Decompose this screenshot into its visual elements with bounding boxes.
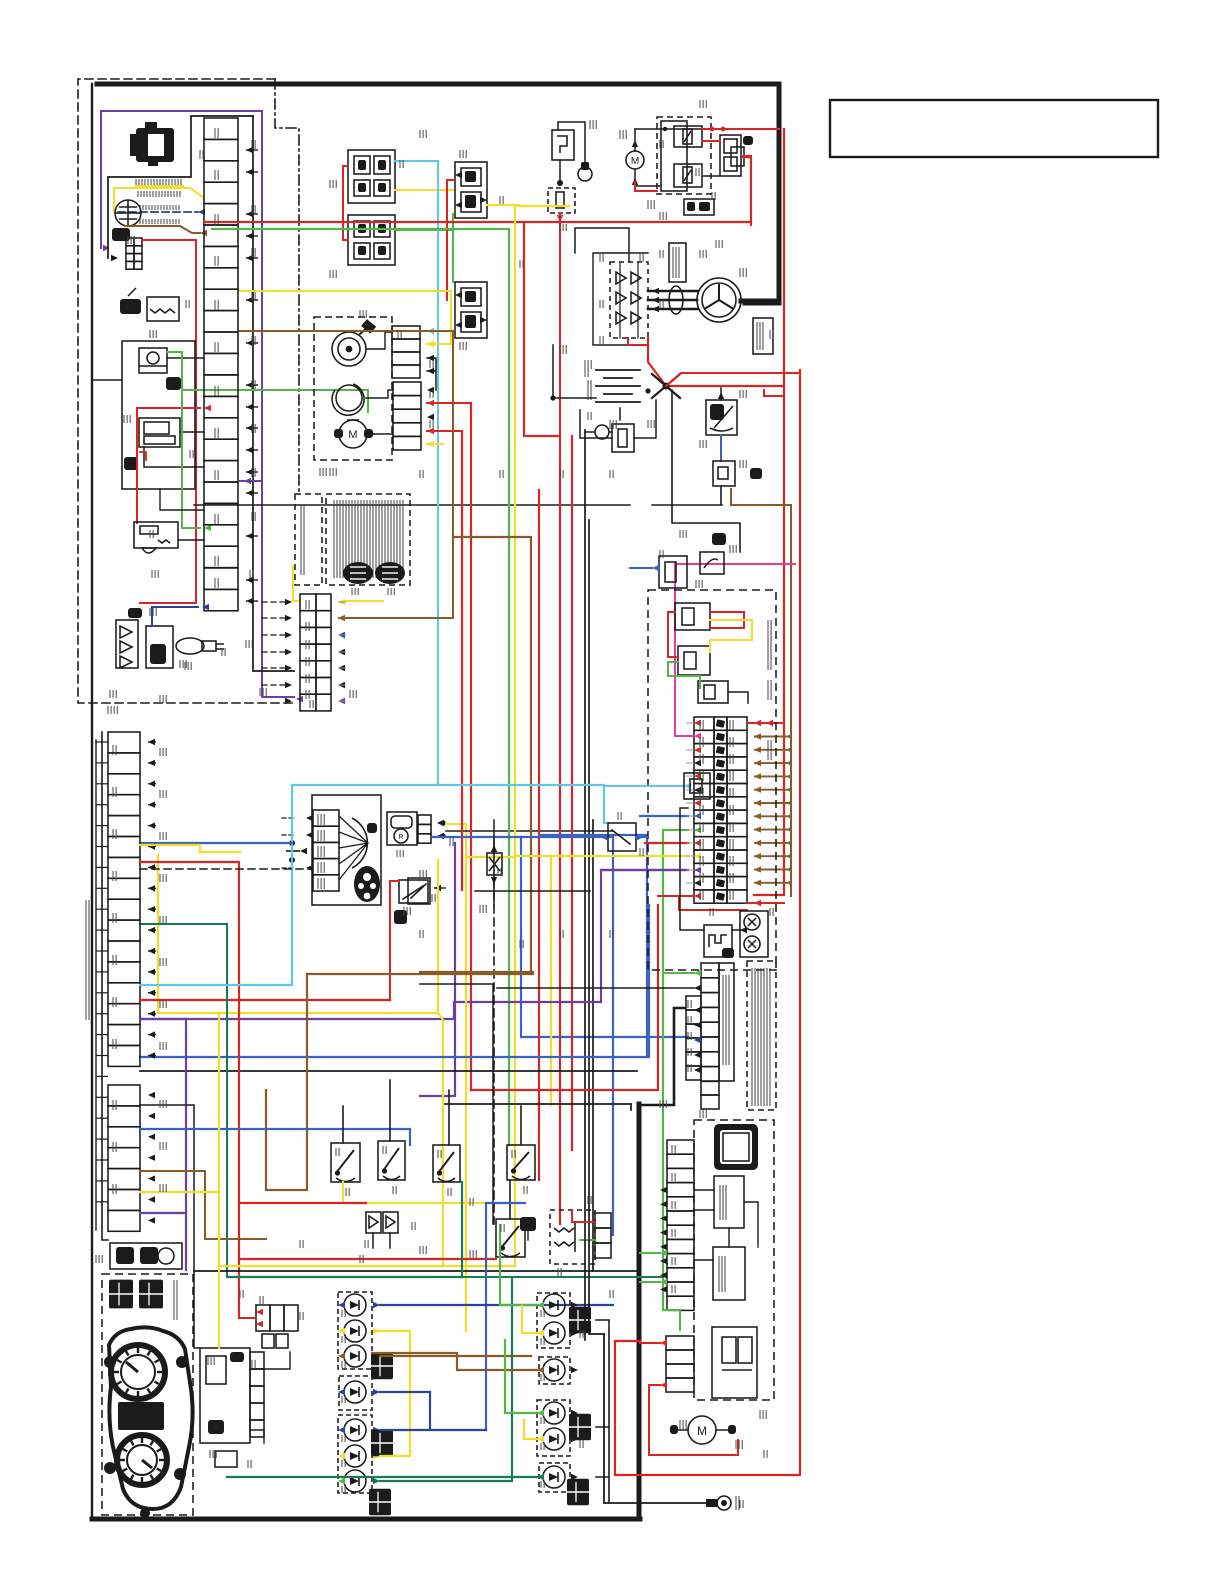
- bulb A3: [344, 1345, 366, 1367]
- throttle sensor box: [139, 348, 167, 373]
- ground bolt bulb: [578, 167, 592, 181]
- starter red right: [743, 156, 751, 225]
- bulb blue lead A1: [380, 1304, 613, 1306]
- speed limiter main cells: [701, 963, 719, 978]
- main connector column lower: [204, 568, 238, 589]
- brown v531: [453, 537, 531, 974]
- headlight dashed box B: [539, 1357, 570, 1384]
- label text row1: [135, 179, 137, 185]
- purple fuse 870: [601, 869, 688, 871]
- ps adc box: [713, 1247, 745, 1300]
- bulb C1: [344, 1419, 366, 1441]
- black v589 low: [589, 1240, 604, 1334]
- red alternator branch: [628, 338, 648, 345]
- black harness outline: [108, 116, 253, 258]
- relay yellow link: [487, 205, 519, 206]
- headlight relay box: [348, 215, 395, 265]
- pod lower box: [139, 418, 180, 447]
- diode leads: [373, 1233, 390, 1248]
- taillight dashed box C: [338, 1415, 372, 1493]
- black long 842 blue: [140, 842, 292, 844]
- red bundle v1: [470, 403, 472, 1090]
- efi system dashed box: [295, 494, 322, 585]
- ps green vertical: [663, 1310, 680, 1330]
- ps lower cells: [666, 1336, 694, 1350]
- ps motor red loop: [649, 1385, 738, 1455]
- tps box: [387, 812, 417, 845]
- horn feed black: [680, 808, 704, 930]
- bulb C3: [344, 1470, 366, 1492]
- front unit wires to conn: [366, 332, 393, 434]
- green mid v509: [212, 229, 509, 1145]
- phase loop ellipse: [669, 286, 683, 314]
- left blue 1129: [140, 1129, 410, 1145]
- red v572: [571, 436, 573, 1150]
- turn signal switch: [433, 1145, 460, 1182]
- fuse feed blue: [640, 815, 688, 817]
- frame bottom border: [92, 1517, 640, 1522]
- blue v613: [433, 837, 613, 1235]
- red row 1259: [239, 1258, 496, 1260]
- black long 891: [475, 890, 590, 892]
- frame ground lower: [604, 1334, 716, 1503]
- red long 1090: [471, 905, 658, 1090]
- dimmer switch: [331, 1143, 360, 1182]
- blue v521: [521, 837, 688, 1037]
- frame left border: [91, 84, 93, 1519]
- red mid v524: [204, 157, 751, 436]
- yellow dimmer lead: [343, 1182, 515, 1203]
- reg label box2: [753, 318, 773, 354]
- starter second box: [731, 147, 744, 166]
- bulb B1: [344, 1381, 366, 1403]
- yellow front conn2: [427, 443, 443, 445]
- headlight dashed box C: [537, 1400, 570, 1456]
- bulb R1: [543, 1294, 565, 1316]
- red row 1203 w: [239, 1202, 366, 1204]
- clutch lever blob: [712, 533, 726, 545]
- light switch: [507, 1145, 535, 1180]
- main relay red lead: [764, 390, 784, 396]
- black v589: [588, 520, 590, 1240]
- tps yellow: [446, 824, 466, 857]
- purple harness loop: [101, 111, 262, 248]
- fuse red bottom: [658, 895, 694, 897]
- sidestand diode box: [487, 853, 502, 875]
- tachometer dial: [111, 1345, 165, 1399]
- left strip label: [85, 900, 87, 1020]
- handlebar pod outline: [122, 341, 195, 489]
- fuse left arrows: [694, 720, 701, 726]
- starter relay element lower: [674, 164, 702, 187]
- relay box 1: [675, 603, 710, 630]
- bulb R2: [543, 1322, 565, 1344]
- ignition coil box: [147, 297, 179, 321]
- starter area label box: [684, 199, 714, 215]
- relay connecting green: [452, 214, 454, 282]
- ps arrows: [660, 1187, 667, 1193]
- grip blob: [166, 377, 181, 390]
- cyan into relay: [604, 822, 608, 824]
- purple rail right of column: [262, 157, 294, 697]
- taillight dashed box A: [338, 1292, 372, 1369]
- red front conn: [427, 403, 471, 431]
- spark unit box: [200, 1348, 250, 1443]
- ps green arrows: [660, 1250, 667, 1256]
- fuse feed red: [645, 842, 688, 844]
- starter relay element upper: [674, 126, 702, 147]
- black sl wire: [497, 987, 694, 989]
- stator housing line: [593, 253, 648, 345]
- yellow v515: [515, 206, 569, 1266]
- ground bolt icon: [717, 1496, 731, 1510]
- ps red arrows: [660, 1340, 667, 1346]
- purple v455: [420, 843, 455, 1096]
- front unit dashed box: [314, 317, 392, 460]
- horn relay: [704, 925, 732, 957]
- pod lead 3: [144, 447, 204, 467]
- main relay box: [706, 400, 737, 435]
- fuse right brown arrows: [754, 733, 761, 739]
- fusebox dashed enclosure: [648, 590, 776, 970]
- alternator to frame thick: [741, 299, 779, 304]
- red thermo v: [559, 460, 561, 1224]
- notes dashed box 1: [747, 961, 776, 1110]
- fuel pump cells: [313, 810, 339, 826]
- neutral relay: [659, 556, 687, 588]
- speed sensor spiral: [332, 332, 366, 366]
- starter top wire: [635, 128, 702, 130]
- blue dashed wire to key: [118, 211, 198, 213]
- ps transformer box: [712, 1327, 757, 1398]
- red bundle v2: [461, 431, 463, 890]
- mid strip left leads: [262, 602, 285, 685]
- blue switch lead: [486, 1203, 525, 1430]
- speed limiter left cells: [686, 996, 701, 1010]
- bulb R dgreen lead2: [227, 1476, 537, 1478]
- starter motor leads: [634, 129, 636, 186]
- left harness vertical: [102, 732, 108, 1240]
- thick corner to ground: [630, 1104, 632, 1110]
- starter M red bottom: [635, 182, 657, 191]
- bulb R yellow lead: [522, 1306, 537, 1333]
- red down from thermo: [559, 213, 561, 460]
- blue sl arrow: [694, 1037, 701, 1043]
- frame main harness border top-right: [97, 84, 779, 303]
- scattered tiny labels: [251, 140, 253, 149]
- diode leads: [493, 820, 495, 905]
- green v663: [662, 831, 664, 1310]
- starter bottom wire: [635, 176, 720, 186]
- red right loop B: [615, 370, 800, 1475]
- left connector strip lower: [108, 1085, 140, 1106]
- battery red plus: [648, 338, 784, 386]
- relay pair1 yellow: [395, 189, 455, 191]
- bulb R green lead2: [505, 1340, 537, 1413]
- fuse feed green: [663, 829, 688, 831]
- speed limiter label box: [719, 963, 734, 1081]
- ignition switch connector icon: [136, 128, 174, 162]
- magnetic switch circle: [595, 425, 609, 439]
- fuse box right column: [727, 717, 747, 730]
- cdi red link: [572, 1210, 595, 1222]
- left red 1000 lead: [140, 999, 148, 1001]
- bulb R green lead: [500, 1225, 537, 1305]
- relay wiring green: [668, 662, 700, 688]
- pod dark blob: [124, 457, 138, 470]
- left yellow 845: [140, 845, 240, 852]
- cdi green link: [580, 1239, 595, 1241]
- blue sensor wire: [152, 607, 198, 626]
- left border black link: [92, 379, 122, 381]
- yellow v551: [550, 857, 552, 1105]
- starter red mid link: [702, 140, 720, 142]
- yellow long 1013: [158, 1012, 438, 1014]
- speed limiter arrows: [694, 970, 701, 976]
- fuse box left column: [694, 717, 714, 730]
- pod bottom lead: [160, 489, 204, 510]
- starter relay outer box: [661, 121, 687, 191]
- left strip arrows: [148, 739, 155, 745]
- bulb R brown lead: [372, 1353, 537, 1370]
- yellow 158 v: [157, 855, 159, 1013]
- cyan long horizontal: [140, 785, 604, 985]
- switch feeds: [343, 1080, 521, 1219]
- green pod wire: [167, 352, 200, 528]
- rectifier bus: [620, 262, 638, 338]
- brown v307: [266, 974, 307, 1190]
- diode pair: [366, 1212, 381, 1233]
- brown 972 right: [420, 971, 533, 973]
- injector icon 1: [343, 562, 373, 584]
- relay blue link: [720, 435, 722, 461]
- brown from box2: [731, 489, 791, 722]
- taillight dashed box B: [339, 1376, 372, 1410]
- blue brake wire: [636, 836, 647, 838]
- parking brake switch: [399, 880, 428, 903]
- front unit connector upper: [392, 326, 420, 339]
- starter motor M: [626, 151, 644, 169]
- bulb R black rail: [596, 1320, 609, 1503]
- parking P icon: [394, 910, 407, 924]
- black v585 low2: [584, 1240, 586, 1340]
- cyan long down: [437, 331, 439, 785]
- bulb conn icon A: [371, 1353, 393, 1379]
- ign coil cells: [262, 1334, 274, 1348]
- left black 869: [140, 868, 312, 870]
- fuel pump fan lines: [339, 816, 368, 880]
- yellow label wire: [114, 186, 204, 212]
- kill glyph blob: [120, 299, 141, 314]
- svg-text:M: M: [631, 156, 639, 167]
- bulb R conn icons: [569, 1307, 591, 1333]
- bulb R3: [543, 1359, 565, 1381]
- cdi cells: [595, 1213, 611, 1228]
- black row 1271: [194, 1270, 637, 1272]
- yellow v465: [466, 857, 515, 1331]
- meter plug icons: [109, 1280, 133, 1309]
- fuse red top right: [747, 722, 784, 724]
- dkgreen long 924: [140, 924, 227, 1277]
- meter dashed box: [102, 1274, 193, 1515]
- horns: [740, 911, 768, 957]
- meter connectors above: [110, 1243, 182, 1269]
- passing switch: [378, 1141, 405, 1180]
- brown wire key: [125, 226, 200, 233]
- black dashdot v593: [592, 820, 594, 1270]
- yellow mid strip feed: [293, 566, 383, 601]
- sl black rail: [640, 1008, 685, 1105]
- horn assembly box: [134, 522, 178, 548]
- bulb R6: [543, 1466, 565, 1488]
- left cyan dash: [140, 984, 292, 986]
- green branch: [182, 390, 368, 412]
- main key cylinder circle: [115, 200, 141, 226]
- frame lower-right harness vertical: [637, 1104, 642, 1519]
- spark yellow: [218, 1266, 220, 1348]
- bulb green lead C3: [380, 1277, 512, 1481]
- three phase wires: [648, 291, 697, 309]
- relay box cyan: [684, 773, 710, 799]
- relay box 3: [698, 681, 728, 703]
- relay arrows: [455, 172, 462, 178]
- dashed enclosure step: [275, 79, 299, 492]
- bulb A2: [344, 1320, 366, 1342]
- sensor blob: [128, 608, 142, 618]
- headlight dashed box D: [539, 1463, 570, 1492]
- title box: [830, 100, 1158, 157]
- thermo unit box: [552, 130, 574, 160]
- relay pair1 green: [395, 230, 453, 282]
- alternator: [697, 278, 741, 322]
- ps motor M: [688, 1416, 716, 1444]
- starter lockout switch: [496, 1219, 525, 1257]
- yellow row 1266: [219, 1265, 515, 1267]
- speed limiter bottom cells: [701, 1081, 719, 1095]
- column right black rail: [253, 116, 294, 671]
- fuel level sensor box: [116, 620, 138, 668]
- relay wiring red: [668, 612, 744, 657]
- pickup coil circle: [336, 385, 362, 411]
- bulb A arrows: [338, 1302, 345, 1308]
- label text row2: [137, 191, 139, 197]
- ps connector cells: [667, 1140, 694, 1154]
- front unit connector lower: [393, 382, 421, 396]
- to-pump blob: [750, 468, 762, 479]
- phase arrows: [652, 288, 659, 294]
- fuel small blob: [367, 823, 377, 833]
- black dash v494: [493, 840, 495, 1224]
- battery junction dots: [550, 395, 555, 400]
- starter red top: [702, 128, 779, 130]
- fan relay A box: [455, 162, 487, 218]
- bulb R yellow lead2: [524, 1420, 537, 1439]
- left purple 1213: [140, 1212, 186, 1214]
- svg-text:R: R: [398, 834, 403, 841]
- brake switch arrows: [600, 834, 607, 840]
- rect top black wire: [575, 228, 629, 262]
- parking red: [390, 881, 399, 1000]
- bulb R arrows: [537, 1302, 544, 1308]
- left purple 1019: [140, 1019, 186, 1270]
- red right loop A: [754, 129, 784, 895]
- parking switch box: [408, 878, 430, 904]
- ignition connector block: [256, 1305, 270, 1331]
- red wire ignition main: [140, 240, 196, 603]
- thermo fuse dashed box: [548, 188, 575, 213]
- purple v601: [140, 870, 685, 1019]
- black long 1104: [445, 1103, 631, 1105]
- fuel pump unit outline: [312, 795, 381, 905]
- left red 852: [140, 862, 239, 1318]
- thermo junction dot: [557, 180, 563, 186]
- relay wiring yellow: [710, 620, 752, 652]
- green arrow wire: [663, 972, 694, 974]
- headlight dashed box A: [537, 1293, 570, 1348]
- left brown 1171: [140, 1171, 266, 1239]
- yellow fuse 859: [515, 855, 688, 857]
- pod lead 2: [180, 431, 204, 433]
- red v539: [538, 490, 540, 1180]
- label text row3: [139, 205, 141, 210]
- dkgreen row 1277: [227, 1182, 462, 1277]
- fan motor relay box: [348, 150, 395, 203]
- pod lead 4: [178, 539, 204, 541]
- cdi dashed box: [550, 1210, 595, 1264]
- pink fuse wire: [675, 564, 795, 736]
- dashed enclosure handlebar area: [78, 79, 295, 703]
- relay pair1 red link: [343, 166, 348, 240]
- fuel pump motor blob: [354, 866, 380, 902]
- rectifier diodes: [616, 272, 626, 284]
- battery symbol: [596, 370, 640, 402]
- label text row4: [139, 219, 141, 224]
- bulb brown lead A3: [380, 1355, 531, 1357]
- thermo unit upper wire: [558, 122, 585, 180]
- red long 1000: [140, 999, 390, 1001]
- fuel pump unit box: [146, 626, 173, 668]
- red pod wire: [137, 408, 200, 523]
- tps arrows: [437, 820, 444, 826]
- brown long 974: [307, 973, 533, 975]
- headlight relay icon: [520, 1217, 536, 1231]
- key icon blob: [112, 228, 130, 241]
- svg-text:M: M: [697, 1424, 707, 1438]
- cyan wire fan: [395, 161, 438, 331]
- fuel pump left arrows: [306, 815, 313, 821]
- left connector strip upper: [108, 732, 140, 753]
- brake switch: [608, 823, 636, 851]
- relay box 2: [678, 646, 710, 675]
- bulb R4: [543, 1402, 565, 1424]
- yellow v438 low: [438, 860, 443, 1266]
- red upper branch: [666, 373, 800, 386]
- bulb R right arrows: [571, 1302, 578, 1308]
- rectifier dashed box: [610, 262, 648, 338]
- spark unit small box: [215, 1451, 237, 1467]
- pod lead 1: [167, 357, 204, 359]
- dkgreen long 1277: [227, 1276, 663, 1278]
- ps control unit box: [714, 1176, 744, 1228]
- ps inner links: [694, 1190, 758, 1260]
- efi notes dashed box: [326, 494, 410, 585]
- ignition box2: [713, 461, 735, 486]
- fuse to battery wires: [580, 400, 656, 438]
- tps black right: [446, 830, 613, 832]
- ps motor leads: [674, 1429, 730, 1431]
- relay red feed: [447, 180, 455, 300]
- spark feeds: [250, 1352, 290, 1443]
